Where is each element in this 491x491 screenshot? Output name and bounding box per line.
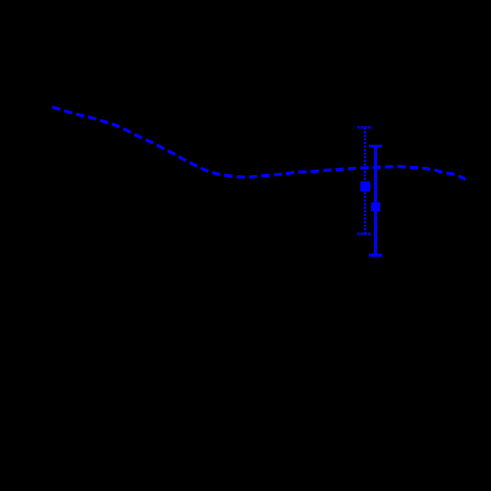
error bar E2 (solid) vertical line: [374, 146, 377, 255]
error bar E2 top cap: [369, 145, 382, 148]
data point marker M2 (square): [371, 202, 380, 211]
error bar E1 top cap: [357, 126, 372, 129]
error bar E1 (dotted) vertical line: [364, 127, 366, 233]
data point marker M1 (square): [360, 181, 370, 191]
error bar E2 bottom cap: [369, 254, 382, 257]
dashed model curve: [52, 107, 465, 179]
error bar E1 bottom cap: [357, 232, 371, 235]
